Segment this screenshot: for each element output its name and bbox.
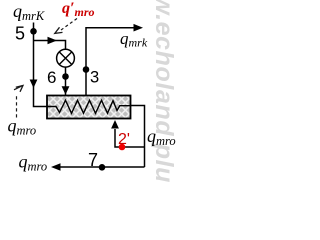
- wire W4: node3 vertical and q_mrk arrow: [86, 28, 134, 96]
- node 6: [62, 73, 69, 80]
- wire W6: 2' line into exchanger bottom: [115, 129, 145, 147]
- wire W3: valve to heat exchanger top: [65, 67, 67, 95]
- node 5: [30, 28, 37, 35]
- svg-text:w.echoland plu: w.echoland plu: [150, 0, 178, 182]
- wire W1: node5 vertical down to heat exchanger left: [34, 23, 48, 107]
- svg-text:2': 2': [118, 131, 130, 148]
- arrowhead up into exchanger bottom: [111, 120, 119, 129]
- svg-text:qmrk: qmrk: [120, 29, 148, 50]
- wire W2: node5 to valve: [34, 41, 66, 50]
- svg-text:7: 7: [88, 150, 98, 170]
- svg-text:qmro: qmro: [19, 152, 48, 174]
- arrowhead down on W1: [30, 80, 38, 89]
- svg-text:q′mro: q′mro: [62, 0, 95, 19]
- valve (expansion) circle-X: [57, 49, 75, 67]
- arrowhead left (q_mro out): [51, 163, 61, 171]
- heat exchanger box: [47, 96, 131, 119]
- wire W5: exchanger right out, down: [131, 106, 145, 168]
- arrowhead right (q_mrk): [134, 24, 144, 32]
- node 2' (red): [119, 144, 126, 151]
- node 7: [99, 164, 106, 171]
- svg-text:5: 5: [15, 23, 25, 43]
- svg-text:qmro: qmro: [8, 116, 37, 138]
- svg-text:6: 6: [47, 68, 56, 87]
- svg-text:3: 3: [90, 68, 99, 86]
- arrowhead down into exchanger: [62, 86, 70, 94]
- wire W7: bottom line with left arrow: [60, 166, 145, 168]
- node 3: [83, 66, 90, 73]
- dashed annotation arrow (top): [61, 19, 77, 31]
- arrowhead right on W2: [48, 37, 58, 45]
- zigzag coil: [48, 100, 131, 113]
- dashed annotation arrow (left): [16, 96, 18, 118]
- svg-text:qmrK: qmrK: [13, 1, 45, 23]
